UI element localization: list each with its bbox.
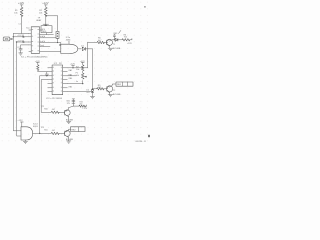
svg-text:4k7: 4k7 (52, 109, 55, 111)
wire IC2 pin1 to V5 (67, 67, 87, 69)
wire (46, 16, 58, 32)
resistor R5 (88, 38, 108, 44)
wire IC2 pin5 to P1 (67, 83, 82, 85)
buzzer BZ1 label (67, 101, 71, 105)
svg-text:BC546B: BC546B (113, 94, 121, 96)
IC1 pins right (40, 29, 43, 31)
svg-text:HEAT: HEAT (36, 19, 42, 22)
transistor T3 (64, 108, 70, 122)
IC2 pin numbers (53, 67, 63, 91)
wire vertical V6 (92, 49, 94, 89)
wire vertical V5 (87, 42, 89, 68)
wire (40, 33, 53, 35)
resistor R1 label (14, 10, 18, 15)
svg-text:020234 - 11: 020234 - 11 (135, 141, 146, 143)
node label wire 2 (17, 40, 29, 42)
top right speck (144, 6, 146, 8)
IC1 pin numbers (32, 29, 39, 51)
IC1 right wire row 1 (39, 34, 41, 36)
svg-text:+12V: +12V (127, 43, 133, 45)
ground IC2 pin (45, 72, 48, 77)
IC2 right pin labels (69, 69, 73, 88)
svg-text:+12V: +12V (82, 108, 87, 110)
wire (13, 16, 28, 34)
+12V flag IC2 (70, 64, 76, 68)
wire IC2 pin7 to ground (67, 91, 92, 93)
svg-text:C1: C1 (18, 24, 20, 26)
svg-text:RA1: RA1 (69, 69, 73, 72)
IC U1 (IC1) box (31, 27, 39, 54)
svg-text:IC2 = PIC16F84: IC2 = PIC16F84 (46, 98, 63, 100)
wire gate input 1 (58, 43, 61, 46)
flyback chain diode D3 (112, 38, 122, 41)
IC1 pins left (29, 30, 31, 52)
resistor R3 (35, 61, 48, 72)
+12V rail flag A (18, 1, 24, 7)
resistor R2 (44, 7, 47, 16)
+12V flag R7 (80, 61, 86, 65)
grid dots (2, 2, 148, 142)
wire vertical bus V1 (13, 34, 21, 131)
svg-text:RB0: RB0 (69, 78, 73, 80)
gate IC1d label (33, 123, 38, 128)
resistor R7 (76, 65, 84, 73)
svg-text:lin: lin (76, 81, 78, 83)
sensor symbol above box (43, 23, 49, 26)
wire bus V3 (41, 80, 48, 113)
capacitor C2 (17, 45, 29, 53)
gate IC1d (bottom AND) (21, 127, 33, 140)
svg-text:(hex): (hex) (40, 45, 45, 47)
svg-text:4k7: 4k7 (52, 130, 55, 132)
ground T4 (67, 141, 71, 143)
svg-text:+12V: +12V (42, 1, 48, 5)
wire bus V4 (40, 76, 48, 134)
svg-text:RB2: RB2 (69, 86, 73, 88)
svg-text:BC546B: BC546B (113, 48, 121, 50)
svg-text:R11: R11 (44, 130, 47, 132)
ground T3 (67, 121, 71, 123)
IC1 right wire row 2 + label (40, 36, 56, 38)
resistor R11 (51, 132, 64, 134)
svg-text:R10: R10 (44, 109, 47, 111)
wire vertical bus V2 (17, 42, 21, 136)
zener D2 (86, 90, 94, 99)
ground T2 (108, 95, 112, 97)
transistor T4 (64, 129, 70, 141)
IC1 right wire row 4 + label (40, 45, 50, 47)
relay RE1 coil (113, 30, 121, 39)
corner mark (148, 135, 150, 137)
buzzer BZ1 (72, 99, 75, 106)
wire IC2 pin3 (67, 75, 76, 77)
relay RE1 box (116, 82, 133, 86)
sensor IC3 label (36, 18, 42, 23)
resistor R12 (79, 102, 88, 111)
crystal X1 (56, 31, 59, 42)
wire gate output (33, 132, 52, 134)
ground (19, 53, 23, 55)
diode D1 (78, 45, 93, 50)
+12V flag gate (17, 120, 23, 127)
resistor R9 (93, 85, 108, 90)
wire gate input 2 (40, 51, 61, 53)
IC U2 (IC2) box (52, 65, 63, 95)
transistor T1 (106, 39, 112, 48)
+12V rail flag B (42, 1, 48, 7)
svg-text:10k: 10k (76, 75, 79, 77)
resistor R10 (41, 111, 64, 113)
svg-text:IC1 = PIC12C508A (4MHz): IC1 = PIC12C508A (4MHz) (21, 55, 48, 58)
IC1 right wire row 3 + label (40, 41, 58, 43)
ground gate (23, 140, 27, 144)
potentiometer P1 (76, 73, 87, 84)
IC2 pins right (63, 68, 68, 92)
connector K1 (3, 37, 13, 41)
svg-text:+12V: +12V (18, 1, 24, 5)
wire buzzer to chain (69, 106, 79, 108)
IC2 pins left (48, 68, 52, 92)
ground T1 (108, 48, 112, 50)
node label wire 1 (13, 35, 28, 37)
resistor R2 label (39, 10, 43, 15)
AND gate IC1a (61, 44, 78, 53)
wire T1 collector (109, 40, 112, 41)
junction dots (13, 15, 116, 134)
svg-text:1820: 1820 (42, 31, 46, 33)
gate IC1a label (66, 37, 71, 44)
resistor R6 (122, 34, 132, 45)
wire T2 collector (109, 84, 116, 87)
svg-text:TP3: TP3 (41, 127, 44, 129)
resistor R1 (20, 7, 23, 16)
transistor T2 (107, 86, 113, 95)
sensor IC4 box (41, 26, 52, 33)
relay RE2 box bottom (71, 127, 86, 132)
